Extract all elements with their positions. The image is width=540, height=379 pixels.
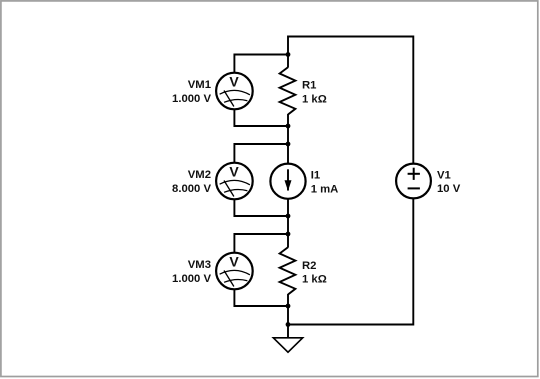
- junction: I1 bottom / VM2 bottom: [286, 214, 291, 219]
- svg-text:R1: R1: [302, 80, 316, 92]
- junction: R1 bottom / VM1 bottom: [286, 124, 291, 129]
- junction: I1 top / VM2 top: [286, 142, 291, 147]
- wire: VM3 bottom lead: [234, 289, 288, 306]
- svg-text:VM3: VM3: [188, 259, 211, 271]
- svg-text:VM2: VM2: [188, 169, 211, 181]
- voltmeter VM1: [172, 73, 253, 110]
- junction: ground node / bottom rail: [286, 322, 291, 327]
- voltage source V1: [396, 164, 461, 199]
- junction: R2 bottom / VM3 bottom: [286, 304, 291, 309]
- svg-text:V: V: [229, 164, 239, 180]
- wire: VM2 bottom lead: [234, 199, 288, 216]
- wire: middle rail from R2 down to ground: [287, 294, 289, 338]
- current source I1: [270, 164, 338, 199]
- svg-text:1 kΩ: 1 kΩ: [302, 93, 327, 105]
- svg-text:1.000 V: 1.000 V: [172, 93, 211, 105]
- svg-text:1 kΩ: 1 kΩ: [302, 273, 327, 285]
- junction: node A (R1 top / VM1 top): [286, 52, 291, 57]
- wire: V1 branch bottom segment: [412, 198, 414, 325]
- junction: R2 top / VM3 top: [286, 232, 291, 237]
- wire: VM1 top lead: [234, 55, 288, 74]
- voltmeter VM3: [172, 253, 253, 290]
- resistor R1: [280, 67, 327, 114]
- svg-text:I1: I1: [311, 170, 320, 182]
- svg-text:1.000 V: 1.000 V: [172, 273, 211, 285]
- wire: top rail from node A to V1 branch: [288, 36, 413, 38]
- svg-text:VM1: VM1: [188, 79, 211, 91]
- svg-text:8.000 V: 8.000 V: [172, 183, 211, 195]
- wire: VM2 top lead: [234, 144, 288, 163]
- wire: VM3 top lead: [234, 234, 288, 253]
- svg-text:V: V: [229, 74, 239, 90]
- wire: middle rail between I1 and R2: [287, 199, 289, 248]
- wire: V1 branch top segment: [412, 36, 414, 165]
- svg-text:R2: R2: [302, 260, 316, 272]
- svg-text:V: V: [229, 254, 239, 270]
- svg-text:V1: V1: [437, 169, 451, 181]
- resistor R2: [280, 247, 327, 294]
- wire: VM1 bottom lead: [234, 109, 288, 126]
- wire: bottom rail: [288, 324, 413, 326]
- svg-text:1 mA: 1 mA: [311, 184, 339, 196]
- wire: middle rail top segment down to R1: [287, 36, 289, 68]
- voltmeter VM2: [172, 163, 253, 200]
- svg-text:10 V: 10 V: [437, 183, 461, 195]
- ground: [273, 338, 302, 352]
- wire: middle rail between R1 and I1: [287, 114, 289, 164]
